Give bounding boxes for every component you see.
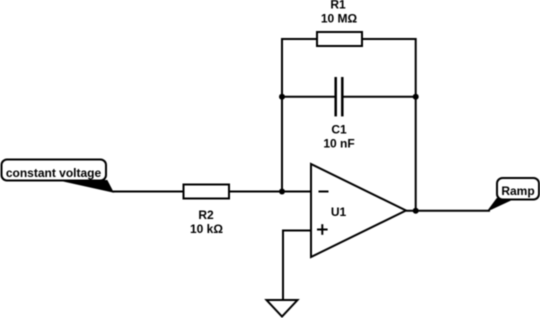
wire capacitor left bbox=[282, 96, 335, 98]
wire input left bbox=[112, 191, 184, 193]
resistor R2 bbox=[184, 185, 230, 199]
svg-text:Ramp: Ramp bbox=[501, 184, 534, 198]
wire top-right segment bbox=[362, 39, 416, 211]
svg-text:U1: U1 bbox=[331, 205, 347, 219]
wire non-inverting input bbox=[283, 231, 311, 301]
svg-text:10 kΩ: 10 kΩ bbox=[190, 222, 223, 236]
op-amp U1 minus pin bbox=[319, 191, 329, 193]
junction dot right capacitor bbox=[413, 94, 419, 100]
wire output bbox=[406, 210, 490, 212]
svg-text:C1: C1 bbox=[331, 123, 347, 137]
wire top-left segment bbox=[282, 39, 317, 192]
node Ramp flag bbox=[488, 178, 539, 211]
wire capacitor right bbox=[344, 96, 416, 98]
junction dot left capacitor bbox=[279, 94, 285, 100]
ground bbox=[267, 300, 298, 317]
wire input right bbox=[229, 191, 311, 193]
svg-text:R1: R1 bbox=[330, 0, 346, 12]
capacitor C1 bbox=[336, 77, 343, 116]
svg-text:10 MΩ: 10 MΩ bbox=[321, 12, 358, 26]
svg-text:constant voltage: constant voltage bbox=[6, 166, 102, 180]
junction dot inverting input bbox=[279, 189, 285, 195]
svg-text:10 nF: 10 nF bbox=[323, 137, 354, 151]
resistor R1 bbox=[317, 32, 362, 46]
junction dot output bbox=[413, 208, 419, 214]
svg-text:R2: R2 bbox=[198, 208, 214, 222]
node constant voltage flag bbox=[2, 160, 114, 193]
op-amp U1 bbox=[311, 164, 406, 257]
op-amp U1 plus pin bbox=[317, 224, 328, 235]
